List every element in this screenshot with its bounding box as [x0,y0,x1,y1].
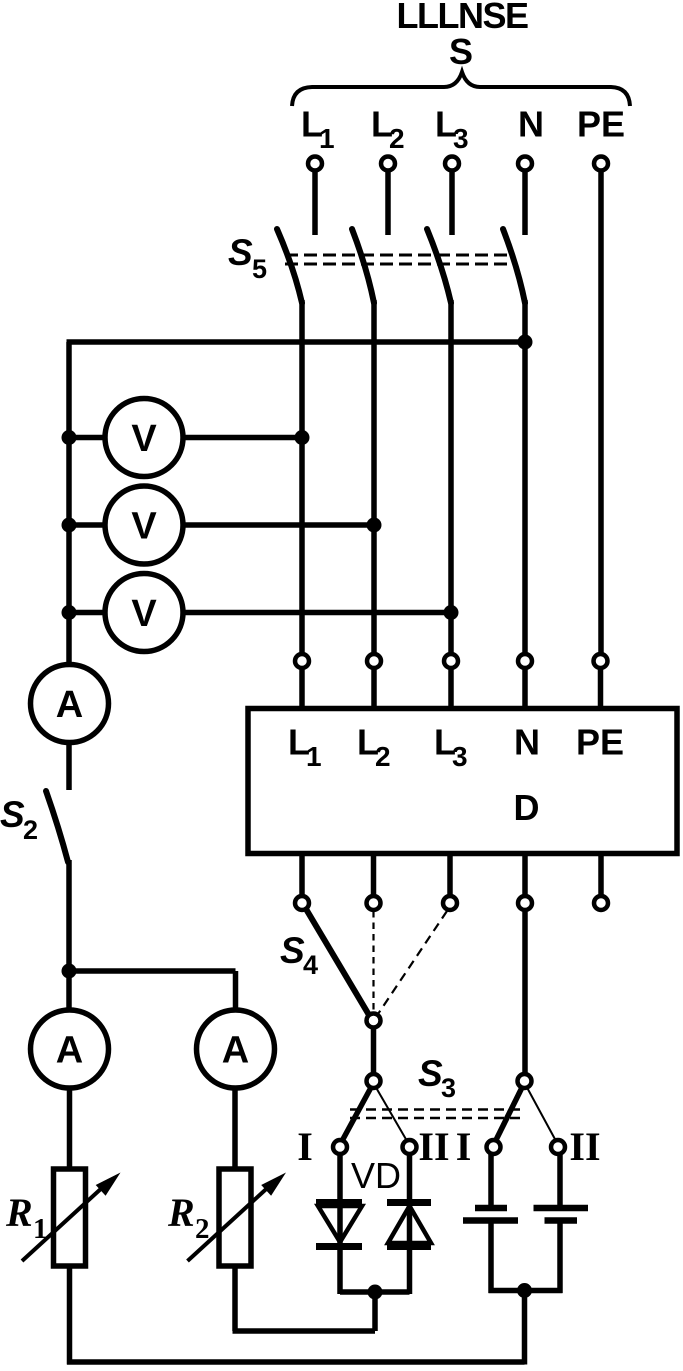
brace over supply [292,72,630,106]
resistor R2 body [219,1169,251,1266]
diode VD1 cathode bar [316,1243,362,1250]
wire PV3 right lead [183,610,451,616]
contact II right [551,1140,565,1154]
svg-text:2: 2 [23,815,38,845]
wire L3 vertical [448,300,454,654]
svg-text:S: S [228,232,253,273]
wire PV1 right lead [183,435,302,441]
terminal below box L1 [295,896,309,910]
wire PA3 to R2 [232,1088,238,1167]
wire N vertical [522,300,528,654]
terminal above box PE [594,654,608,668]
terminal L1 top [308,157,322,171]
resistor R1 body [54,1169,86,1266]
terminal above box N [518,654,532,668]
svg-text:D: D [514,787,540,828]
diode VD1 triangle [318,1206,362,1242]
svg-text:R: R [5,1190,33,1235]
wire L3 fixed contact stub [449,172,455,235]
wire bottom bus [67,1359,525,1365]
diode VD2 cathode bar [387,1199,431,1206]
switch S5 coupling dashed line upper [285,254,513,257]
svg-text:3: 3 [453,123,469,154]
wire L2 vertical [371,300,377,654]
svg-text:S: S [418,1053,443,1094]
wire capacitor bottom bus [489,1288,563,1294]
wire R1 to bottom bus [67,1266,73,1365]
svg-text:N: N [518,104,544,145]
switch S2 blade [46,791,68,862]
switch S5 pole 1 blade [277,229,302,303]
terminal below box L2 [367,896,381,910]
svg-text:2: 2 [389,123,405,154]
svg-text:2: 2 [375,741,391,772]
resistor R1 arrow [22,1186,104,1261]
switch S5 pole 3 blade [427,229,451,303]
terminal below box N [518,896,532,910]
svg-text:I: I [297,1124,313,1169]
wire L1 vertical [299,300,305,654]
svg-text:R: R [167,1190,195,1235]
wire branch down to PA3 [233,971,239,1010]
svg-text:1: 1 [306,741,322,772]
wire L2 into box [371,668,377,708]
wire PV2 left lead [69,522,105,528]
svg-text:5: 5 [252,254,267,284]
switch S3 pole 1 alt blade to II [376,1088,407,1142]
diode VD2 triangle [388,1206,431,1243]
wire diode VD2 branch [407,1154,413,1294]
voltmeter PV2 [105,486,183,564]
svg-text:S: S [280,930,305,971]
switch S3 pole 2 alt blade to II [527,1088,556,1142]
diode VD1 anode bar [316,1199,362,1206]
junction PV1 to L1 [295,430,310,445]
wire R2 to diode node [233,1328,376,1334]
svg-text:A: A [56,1030,83,1072]
svg-text:A: A [56,684,83,726]
terminal below box PE [594,896,608,910]
ammeter PA1 [31,665,109,743]
switch S3 pole 2 blade to I [496,1088,523,1142]
svg-text:S: S [0,794,25,835]
junction bus to N [518,335,533,350]
device box D [248,709,677,854]
svg-text:1: 1 [33,1213,48,1245]
wire PE [598,172,604,654]
wire PE below box [598,854,604,896]
junction diode bus [368,1285,383,1300]
svg-text:II: II [569,1124,600,1169]
wire branch horizontal [69,968,236,974]
wire measuring bus horizontal [67,339,526,345]
switch S3 pole 1 common [367,1074,381,1088]
wire PA1 bottom lead [66,742,72,790]
terminal L3 top [445,157,459,171]
switch S4 blade [306,909,369,1015]
wire capacitor C1 branch top [488,1154,494,1208]
svg-text:II: II [418,1124,449,1169]
contact I left [333,1140,347,1154]
svg-text:N: N [514,722,540,763]
svg-text:V: V [131,418,157,460]
switch S4 alt position dashed from L3 [378,911,447,1014]
terminal above box L3 [444,654,458,668]
terminal PE top [594,157,608,171]
switch S3 coupling dashed upper [350,1108,522,1111]
terminal L2 top [381,157,395,171]
wire left rail [66,342,72,662]
svg-text:V: V [131,593,157,635]
svg-text:A: A [222,1030,249,1072]
wire capacitor C2 branch bottom [557,1221,563,1294]
wire N below box [522,854,528,896]
wire S2 to junction [66,860,72,973]
switch S5 pole 2 blade [352,229,374,303]
wire L2 fixed contact stub [385,172,391,235]
terminal above box L2 [367,654,381,668]
switch S5 pole 4 blade [503,229,525,303]
svg-text:4: 4 [303,950,318,980]
svg-text:PE: PE [577,104,625,145]
voltmeter PV1 [105,399,183,477]
wire L1 fixed contact stub [312,172,318,235]
switch S4 common contact [367,1014,381,1028]
contact I right [487,1140,501,1154]
wire capacitor node to bottom bus [522,1291,528,1365]
terminal below box L3 [443,896,457,910]
svg-text:PE: PE [576,722,624,763]
junction capacitor bus [517,1283,532,1298]
ammeter PA2 [31,1010,109,1088]
wire S4 to S3 [371,1028,377,1075]
junction rail PV2 [62,518,77,533]
wire PA2 to R1 [67,1088,73,1167]
wire diode VD1 branch [337,1154,343,1294]
contact II left [403,1140,417,1154]
wire PV2 right lead [183,522,374,528]
switch S4 alt position dashed from L2 [372,911,374,1011]
wire L1 below box [299,854,305,896]
terminal above box L1 [295,654,309,668]
wire L2 below box [371,854,377,896]
junction PV3 to L3 [444,605,459,620]
switch S3 pole 2 common [518,1074,532,1088]
diode VD2 base bar [387,1243,431,1250]
svg-text:VD: VD [351,1155,401,1196]
capacitor C2 top plate [534,1205,589,1212]
terminal N top [518,157,532,171]
wire N to S3 [522,910,528,1074]
capacitor C2 bottom plate [545,1217,578,1224]
voltmeter PV3 [105,574,183,652]
capacitor C1 bottom plate [463,1217,518,1224]
wire L3 into box [448,668,454,708]
wire PV1 left lead [69,435,105,441]
svg-text:2: 2 [195,1213,210,1245]
junction PV2 to L2 [367,518,382,533]
wire R2 down [232,1266,238,1331]
svg-text:3: 3 [452,741,468,772]
resistor R2 arrow [188,1186,270,1261]
wire N into box [522,668,528,708]
junction branch node [62,964,77,979]
svg-text:S: S [449,31,473,72]
wire capacitor C2 branch top [557,1154,563,1208]
svg-text:3: 3 [441,1073,456,1103]
ammeter PA3 [197,1010,275,1088]
wire capacitor C1 branch bottom [488,1221,494,1294]
wire N fixed contact stub [522,172,528,235]
wire L1 into box [299,668,305,708]
wire PE into box [598,668,604,708]
wire PV3 left lead [69,610,105,616]
switch S5 coupling dashed line lower [285,263,513,266]
junction rail PV3 [62,605,77,620]
svg-text:V: V [131,506,157,548]
wire diode node down [372,1292,378,1331]
capacitor C1 top plate [475,1205,507,1212]
switch S3 coupling dashed lower [350,1117,522,1120]
svg-text:1: 1 [319,123,335,154]
wire junction down to PA2 [66,971,72,1010]
switch S3 pole 1 blade to I [342,1088,371,1142]
svg-text:I: I [456,1124,472,1169]
wire diode bottom bus [340,1289,410,1295]
junction rail PV1 [62,430,77,445]
wire L3 below box [447,854,453,896]
